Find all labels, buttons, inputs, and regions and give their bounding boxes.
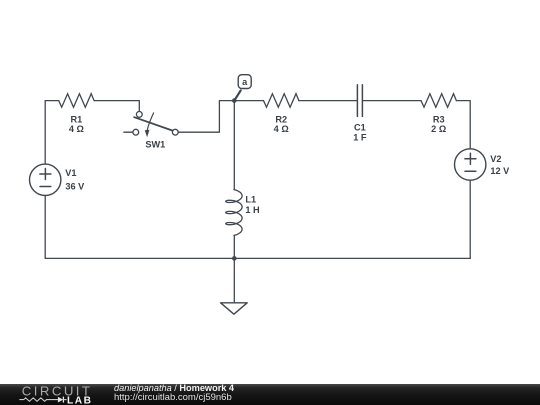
switch SW1 left throw pin circle — [133, 129, 139, 135]
svg-text:1 H: 1 H — [245, 205, 260, 215]
label R3 2Ω — [431, 114, 446, 134]
footer bar — [0, 384, 540, 405]
node a label box — [238, 75, 251, 89]
left rail wire top — [44, 101, 46, 165]
logo diode — [58, 397, 67, 403]
credit text — [114, 383, 234, 404]
wire R1 to switch pole — [94, 101, 139, 112]
svg-text:a: a — [242, 77, 248, 87]
voltage source V1 circle — [30, 164, 61, 195]
svg-text:1 F: 1 F — [353, 133, 367, 143]
svg-text:4 Ω: 4 Ω — [274, 124, 289, 134]
capacitor C1 plates — [357, 85, 362, 117]
node a leader line — [234, 90, 240, 100]
label R2 4Ω — [274, 114, 289, 134]
V2 minus sign — [465, 170, 476, 172]
CircuitLab logo — [0, 384, 110, 405]
svg-text:R1: R1 — [71, 114, 83, 124]
voltage source V2 circle — [455, 149, 486, 180]
V1 plus sign — [40, 169, 51, 180]
svg-text:C1: C1 — [354, 122, 366, 132]
inductor L1 coil — [226, 190, 242, 236]
bottom rail wire — [45, 257, 470, 259]
svg-text:V1: V1 — [65, 168, 76, 178]
switch SW1 left throw stub wire — [124, 131, 133, 133]
resistor R2 — [264, 94, 299, 108]
ground stem wire — [233, 258, 235, 302]
svg-text:12 V: 12 V — [490, 166, 510, 176]
wire node a down to L1 — [233, 101, 235, 190]
wire node a to R2 — [234, 100, 263, 102]
svg-text:R2: R2 — [275, 114, 287, 124]
left rail wire bottom — [44, 196, 46, 259]
logo LAB text — [67, 396, 92, 405]
svg-text:L1: L1 — [245, 194, 256, 204]
V2 plus sign — [465, 153, 476, 164]
ground symbol — [221, 303, 248, 314]
svg-text:36 V: 36 V — [65, 182, 85, 192]
svg-text:2 Ω: 2 Ω — [431, 124, 446, 134]
label V1 36V — [65, 168, 85, 191]
label C1 1F — [353, 122, 367, 142]
node a junction dot — [232, 98, 237, 103]
junction dot at bottom rail — [232, 256, 237, 261]
svg-text:SW1: SW1 — [145, 140, 165, 150]
label SW1 — [145, 140, 165, 150]
logo resistor zigzag — [19, 398, 58, 401]
svg-text:4 Ω: 4 Ω — [69, 124, 84, 134]
resistor R1 — [59, 94, 94, 108]
switch SW1 blade — [134, 117, 172, 130]
svg-text:V2: V2 — [490, 154, 501, 164]
wire L1 to bottom rail — [233, 235, 235, 258]
wire V2 to bottom rail — [469, 180, 471, 258]
svg-text:R3: R3 — [433, 114, 445, 124]
wire top-left horizontal from left rail to R1 — [45, 100, 59, 102]
svg-text:LAB: LAB — [67, 396, 92, 405]
wire R2 to C1 — [299, 100, 357, 102]
wire R3 to V2 — [456, 101, 470, 149]
switch SW1 right throw pin circle — [172, 129, 178, 135]
label R1 4Ω — [69, 114, 84, 134]
wire C1 to R3 — [363, 100, 421, 102]
resistor R3 — [421, 94, 456, 108]
switch SW1 actuation arrow arc — [145, 113, 154, 137]
switch SW1 pole pin circle — [136, 112, 142, 118]
V1 minus sign — [40, 186, 51, 188]
wire switch right throw to node a junction — [178, 101, 234, 133]
label V2 12V — [490, 154, 510, 176]
label L1 1H — [245, 194, 260, 214]
